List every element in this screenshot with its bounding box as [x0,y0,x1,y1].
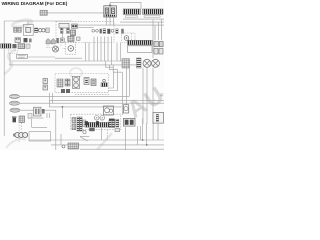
svg-text:WIRING DIAGRAM (For DCE): WIRING DIAGRAM (For DCE) [2,1,68,7]
